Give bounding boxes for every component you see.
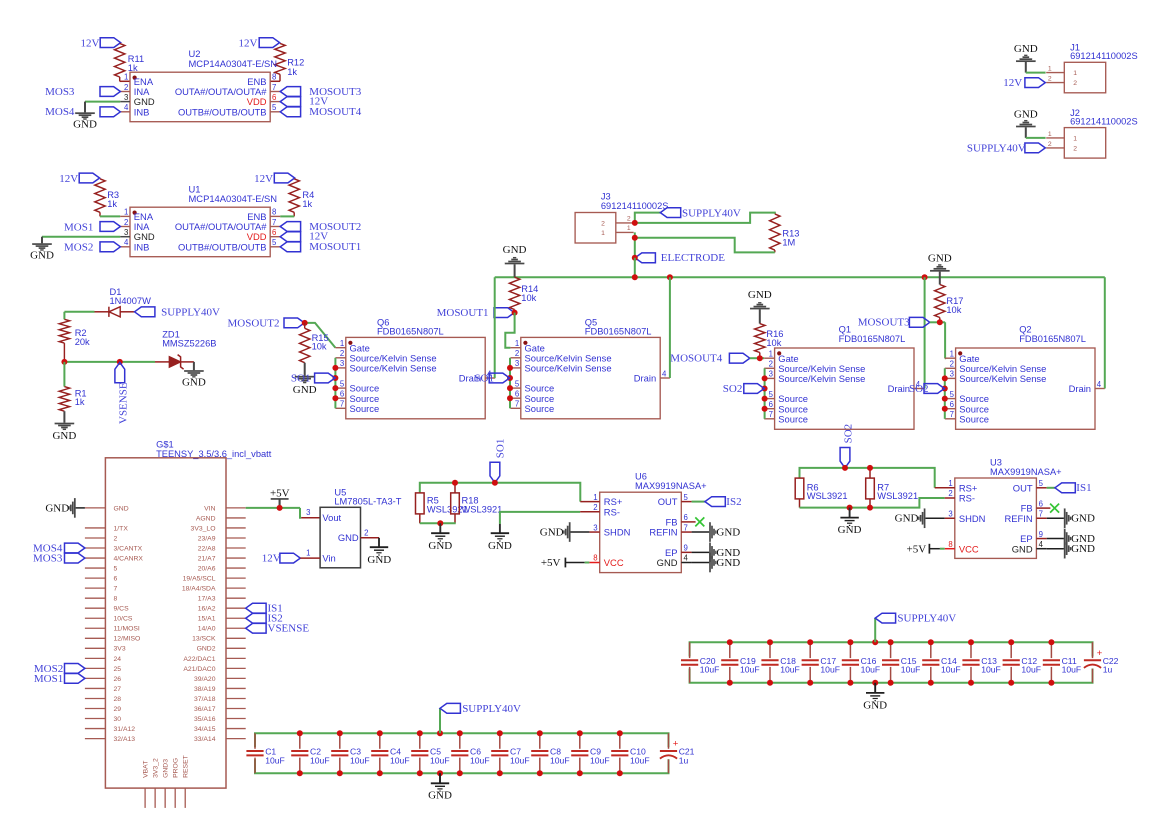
label 12V (U5 Vin) bbox=[262, 553, 301, 565]
svg-text:10uF: 10uF bbox=[820, 665, 840, 675]
ground GND (ZD1) bbox=[182, 362, 206, 389]
svg-text:Source: Source bbox=[525, 403, 555, 414]
label MOSOUT3 (Q2 gate) bbox=[858, 317, 930, 329]
svg-text:GND: GND bbox=[748, 289, 772, 301]
svg-text:SO2: SO2 bbox=[842, 424, 854, 444]
svg-text:FDB0165N807L: FDB0165N807L bbox=[1019, 334, 1086, 344]
capacitor C16 10uF bbox=[842, 642, 880, 683]
capacitor C6 10uF bbox=[451, 733, 489, 773]
power flag 12V (R4 top) bbox=[254, 173, 295, 185]
svg-text:Drain: Drain bbox=[1069, 383, 1091, 394]
resistor R18 WSL3921 bbox=[451, 483, 503, 524]
svg-text:23/A9: 23/A9 bbox=[198, 535, 216, 542]
label MOS3 (Teensy 4/CANRX) bbox=[33, 552, 85, 564]
wire R2/R1 node to ZD1 bbox=[64, 361, 155, 363]
svg-text:1u: 1u bbox=[679, 755, 689, 765]
transistor Q1 FDB0165N807L box bbox=[775, 325, 914, 430]
Q1 source junction dots bbox=[762, 375, 768, 411]
wire bus to Q5 drain bbox=[669, 277, 671, 378]
svg-text:3: 3 bbox=[340, 359, 344, 368]
capacitor C4 10uF bbox=[371, 733, 409, 773]
label SUPPLY40V (D1) bbox=[135, 306, 220, 318]
R5/R18 bottom rail bbox=[420, 522, 456, 524]
wire Teensy VIN to U5 Vout bbox=[246, 508, 320, 518]
svg-text:5: 5 bbox=[114, 565, 118, 572]
svg-text:3: 3 bbox=[769, 370, 773, 379]
capacitor C7 10uF bbox=[491, 733, 529, 773]
svg-text:7: 7 bbox=[515, 400, 519, 409]
svg-text:GND: GND bbox=[338, 532, 359, 543]
svg-text:MOS3: MOS3 bbox=[45, 86, 75, 98]
transistor Q2 FDB0165N807L box bbox=[956, 325, 1095, 430]
svg-text:WSL3921: WSL3921 bbox=[807, 491, 848, 501]
svg-text:10uF: 10uF bbox=[265, 755, 285, 765]
svg-text:1k: 1k bbox=[302, 199, 312, 209]
svg-text:37/A18: 37/A18 bbox=[194, 696, 216, 703]
svg-text:FDB0165N807L: FDB0165N807L bbox=[585, 327, 652, 337]
svg-text:8: 8 bbox=[272, 208, 276, 217]
Q1 pin stubs bbox=[764, 358, 924, 419]
label IS2 bbox=[705, 496, 742, 508]
transistor Q6 FDB0165N807L box bbox=[346, 317, 485, 418]
svg-text:MOSOUT3: MOSOUT3 bbox=[858, 317, 910, 329]
R6/R7 bottom rail bbox=[800, 498, 945, 508]
svg-text:5: 5 bbox=[515, 379, 520, 388]
svg-text:GND: GND bbox=[1014, 109, 1038, 121]
svg-text:3: 3 bbox=[124, 228, 128, 237]
svg-text:691214110002S: 691214110002S bbox=[1070, 51, 1138, 61]
svg-text:8: 8 bbox=[948, 540, 952, 549]
svg-text:3: 3 bbox=[948, 509, 952, 518]
svg-text:6: 6 bbox=[950, 400, 954, 409]
svg-text:7: 7 bbox=[1039, 509, 1043, 518]
svg-text:26: 26 bbox=[114, 676, 122, 683]
svg-text:28: 28 bbox=[114, 696, 122, 703]
svg-text:WSL3921: WSL3921 bbox=[462, 505, 503, 515]
svg-text:7: 7 bbox=[684, 523, 688, 532]
MCU G$1 TEENSY_3.5/3.6_incl_vbatt box bbox=[105, 439, 271, 788]
svg-text:8: 8 bbox=[272, 73, 276, 82]
U6 pin numbers bbox=[593, 493, 688, 563]
svg-text:GND: GND bbox=[428, 790, 452, 802]
svg-text:1: 1 bbox=[601, 230, 605, 237]
svg-text:12V: 12V bbox=[239, 38, 258, 50]
svg-text:9: 9 bbox=[1039, 530, 1043, 539]
svg-text:10uF: 10uF bbox=[470, 755, 490, 765]
svg-text:MAX9919NASA+: MAX9919NASA+ bbox=[635, 481, 707, 491]
ground GND (U6 RS-) bbox=[488, 524, 512, 552]
svg-text:1k: 1k bbox=[287, 67, 297, 77]
R6/R7 rail junction dots bbox=[842, 465, 873, 511]
svg-text:20k: 20k bbox=[75, 337, 90, 347]
svg-text:8: 8 bbox=[593, 554, 597, 563]
svg-text:12/MISO: 12/MISO bbox=[114, 636, 141, 643]
connector J3 691214110002S bbox=[575, 192, 668, 243]
svg-text:691214110002S: 691214110002S bbox=[1070, 116, 1138, 126]
svg-text:7: 7 bbox=[272, 83, 276, 92]
svg-text:15/A1: 15/A1 bbox=[198, 616, 216, 623]
wire J3 pin1 to R13 bottom bbox=[635, 232, 775, 252]
wire U1 pin3 to GND bbox=[42, 236, 130, 238]
resistor R5 WSL3921 bbox=[416, 493, 468, 523]
svg-text:5: 5 bbox=[1039, 479, 1044, 488]
svg-text:TEENSY_3.5/3.6_incl_vbatt: TEENSY_3.5/3.6_incl_vbatt bbox=[156, 449, 272, 459]
label MOS3 bbox=[45, 86, 120, 98]
svg-text:U3: U3 bbox=[990, 457, 1002, 467]
svg-text:+5V: +5V bbox=[907, 543, 927, 555]
svg-text:12V: 12V bbox=[1003, 77, 1022, 89]
label SO1 (shunt bank, vertical) bbox=[490, 439, 506, 483]
svg-text:GND: GND bbox=[503, 244, 527, 256]
Teensy bottom pins VBAT 3V3_2 GND3 PROG RESET bbox=[143, 755, 190, 808]
svg-text:U6: U6 bbox=[635, 472, 647, 482]
bank junction dots bbox=[297, 730, 623, 776]
capacitor C17 10uF bbox=[802, 642, 840, 683]
capacitor C18 10uF bbox=[761, 642, 799, 683]
svg-text:Source/Kelvin Sense: Source/Kelvin Sense bbox=[350, 363, 437, 374]
svg-text:GND: GND bbox=[114, 505, 129, 512]
svg-text:GND: GND bbox=[30, 250, 54, 262]
wire bus to Q2 drain bbox=[1104, 277, 1106, 388]
label VSENSE (Teensy 14/A0) bbox=[246, 623, 310, 635]
svg-text:2: 2 bbox=[627, 216, 631, 223]
svg-text:13/SCK: 13/SCK bbox=[192, 636, 216, 643]
resistor R12 bbox=[270, 43, 304, 81]
capacitor C13 10uF bbox=[962, 642, 1000, 683]
svg-text:10uF: 10uF bbox=[901, 665, 921, 675]
wire U3 OUT to IS1 bbox=[1047, 487, 1055, 489]
svg-text:MCP14A0304T-E/SN: MCP14A0304T-E/SN bbox=[189, 193, 278, 204]
U2 pin names bbox=[134, 76, 267, 118]
wire U6 EP to GND bbox=[692, 551, 710, 553]
U3 pin names bbox=[959, 482, 1033, 554]
resistor R2 bbox=[59, 319, 90, 362]
svg-text:Source/Kelvin Sense: Source/Kelvin Sense bbox=[778, 373, 865, 384]
ground GND (U2) bbox=[73, 102, 97, 131]
ground GND (U1) bbox=[30, 237, 54, 262]
svg-text:IS2: IS2 bbox=[726, 496, 741, 508]
wire RS- to its GND bbox=[500, 512, 580, 524]
svg-text:10k: 10k bbox=[521, 293, 536, 303]
svg-text:4: 4 bbox=[124, 103, 129, 112]
Teensy left pin names bbox=[114, 505, 144, 743]
svg-text:1: 1 bbox=[948, 479, 952, 488]
svg-text:1: 1 bbox=[1073, 136, 1077, 143]
capacitor C9 10uF bbox=[571, 733, 609, 773]
wire R3 to U1 pin1 bbox=[100, 215, 120, 217]
ground GND (R6/R7) bbox=[838, 508, 862, 537]
svg-text:1: 1 bbox=[124, 73, 128, 82]
svg-text:3: 3 bbox=[950, 370, 954, 379]
svg-text:1: 1 bbox=[306, 549, 310, 558]
Q6 pin numbers bbox=[340, 339, 492, 409]
label SO2 (shunt bank, vertical) bbox=[840, 424, 854, 468]
svg-text:VCC: VCC bbox=[604, 557, 624, 568]
wire U3 EP to GND bbox=[1047, 538, 1064, 540]
Q6 source bus wire bbox=[334, 358, 336, 409]
svg-text:GND: GND bbox=[1071, 543, 1095, 555]
svg-text:GND: GND bbox=[1012, 543, 1033, 554]
svg-text:GND2: GND2 bbox=[197, 646, 216, 653]
svg-text:7: 7 bbox=[114, 586, 118, 593]
svg-text:10uF: 10uF bbox=[1021, 665, 1041, 675]
connector J1 691214110002S bbox=[1046, 43, 1137, 93]
U1 pin numbers bbox=[124, 208, 277, 248]
U2 pin stubs bbox=[120, 92, 280, 112]
svg-text:1/TX: 1/TX bbox=[114, 525, 129, 532]
wire U6 REFIN to GND bbox=[692, 531, 710, 533]
svg-text:RS-: RS- bbox=[604, 506, 620, 517]
svg-text:MAX9919NASA+: MAX9919NASA+ bbox=[990, 467, 1062, 477]
svg-text:10uF: 10uF bbox=[590, 755, 610, 765]
svg-text:2: 2 bbox=[114, 535, 118, 542]
op-amp U1 MCP14A0304T-E/SN gate driver box bbox=[130, 183, 277, 256]
svg-text:4: 4 bbox=[1039, 540, 1044, 549]
ground GND (cap bank) bbox=[428, 773, 452, 802]
ground GND (above R17) bbox=[928, 253, 952, 285]
wire bus to Q1 drain bbox=[924, 277, 926, 388]
svg-text:3: 3 bbox=[593, 523, 597, 532]
label IS1 (Teensy 16/A2) bbox=[246, 603, 283, 615]
svg-text:5: 5 bbox=[272, 103, 277, 112]
wire main supply bus bbox=[495, 258, 1105, 277]
wire MOSOUT2 to Q6 gate (diagonal) bbox=[305, 323, 336, 348]
svg-text:GND: GND bbox=[863, 699, 887, 711]
svg-text:GND: GND bbox=[182, 377, 206, 389]
ground GND (U6 REFIN, sideways) bbox=[709, 522, 740, 542]
svg-text:6: 6 bbox=[272, 228, 276, 237]
wire U2 pin3 to GND bbox=[85, 101, 130, 103]
svg-text:WSL3921: WSL3921 bbox=[877, 491, 918, 501]
svg-text:MOS3: MOS3 bbox=[33, 552, 63, 564]
capacitor C10 10uF bbox=[611, 733, 649, 773]
svg-text:SO1: SO1 bbox=[494, 439, 506, 459]
svg-text:Drain: Drain bbox=[634, 373, 656, 384]
svg-text:INB: INB bbox=[134, 106, 150, 117]
svg-text:GND: GND bbox=[367, 554, 391, 566]
Q5 pin names bbox=[525, 342, 657, 414]
svg-text:6: 6 bbox=[340, 390, 344, 399]
wire R4 to U1 pin8 bbox=[280, 215, 294, 217]
svg-text:10uF: 10uF bbox=[510, 755, 530, 765]
svg-text:1N4007W: 1N4007W bbox=[110, 296, 152, 306]
svg-text:OUTB#/OUTB/OUTB: OUTB#/OUTB/OUTB bbox=[178, 106, 267, 117]
node R14/MOSOUT1 bbox=[512, 310, 518, 316]
svg-text:4: 4 bbox=[662, 369, 667, 378]
capacitor C12 10uF bbox=[1003, 642, 1041, 683]
wire J3 pin2 to SUPPLY40V and R13 top bbox=[635, 213, 775, 223]
svg-text:2: 2 bbox=[1073, 146, 1077, 153]
wire R14 node to Q5 gate bbox=[505, 313, 514, 348]
resistor R13 1M bbox=[770, 214, 800, 253]
ground GND (R15) bbox=[293, 363, 317, 396]
svg-text:9/CS: 9/CS bbox=[114, 606, 130, 613]
svg-text:MOSOUT4: MOSOUT4 bbox=[670, 353, 722, 365]
svg-text:VBAT: VBAT bbox=[143, 761, 150, 778]
resistor R7 WSL3921 bbox=[866, 468, 918, 508]
label MOSOUT1 (Q5 gate) bbox=[437, 307, 515, 319]
svg-text:2: 2 bbox=[950, 360, 954, 369]
svg-text:SUPPLY40V: SUPPLY40V bbox=[897, 613, 956, 625]
svg-text:2: 2 bbox=[515, 349, 519, 358]
label MOSOUT4 (U2 pin5) bbox=[280, 106, 362, 118]
label MOS4 (Teensy 3/CANTX) bbox=[33, 542, 85, 554]
label IS2 (Teensy 15/A1) bbox=[246, 613, 283, 625]
svg-text:FDB0165N807L: FDB0165N807L bbox=[839, 334, 906, 344]
svg-text:SO2: SO2 bbox=[723, 383, 743, 395]
svg-text:12V: 12V bbox=[81, 38, 100, 50]
svg-text:1k: 1k bbox=[107, 199, 117, 209]
Teensy left pin stubs bbox=[85, 508, 106, 739]
ground GND (U6 pin4, sideways) bbox=[709, 553, 740, 573]
svg-text:6: 6 bbox=[769, 400, 773, 409]
label 12V (J1 pin2) bbox=[1003, 77, 1045, 89]
diode D1 1N4007W bbox=[95, 287, 152, 317]
label MOS1 bbox=[64, 221, 120, 233]
svg-text:10uF: 10uF bbox=[550, 755, 570, 765]
svg-text:3V3: 3V3 bbox=[114, 646, 126, 653]
Q6 pin stubs bbox=[335, 348, 495, 409]
svg-text:3: 3 bbox=[515, 359, 519, 368]
label SUPPLY40V (J3) bbox=[660, 207, 741, 219]
svg-text:GND: GND bbox=[716, 527, 740, 539]
svg-text:6: 6 bbox=[684, 513, 688, 522]
capacitor C15 10uF bbox=[882, 642, 920, 683]
svg-text:7: 7 bbox=[340, 400, 344, 409]
svg-text:AGND: AGND bbox=[196, 515, 216, 522]
svg-text:9: 9 bbox=[684, 544, 688, 553]
svg-text:10uF: 10uF bbox=[700, 665, 720, 675]
svg-text:SUPPLY40V: SUPPLY40V bbox=[462, 703, 521, 715]
label SO2 (Q1 sources) bbox=[723, 383, 764, 395]
svg-text:2: 2 bbox=[364, 528, 368, 537]
svg-text:2: 2 bbox=[1048, 141, 1052, 148]
capacitor C5 10uF bbox=[411, 733, 449, 773]
svg-text:GND3: GND3 bbox=[163, 759, 170, 778]
svg-text:SUPPLY40V: SUPPLY40V bbox=[682, 207, 741, 219]
ground GND (U6 SHDN, sideways) bbox=[540, 522, 590, 542]
capacitor C19 10uF bbox=[721, 642, 759, 683]
power flag 12V (R3 top) bbox=[59, 173, 99, 185]
U3 pin stubs bbox=[935, 488, 1051, 549]
svg-text:32/A13: 32/A13 bbox=[114, 736, 136, 743]
Q2 pin numbers bbox=[950, 350, 1102, 420]
Q2 pin stubs bbox=[945, 358, 1105, 419]
svg-text:10k: 10k bbox=[312, 342, 327, 352]
svg-text:GND: GND bbox=[895, 513, 919, 525]
svg-text:10uF: 10uF bbox=[1062, 665, 1082, 675]
power flag 12V (R11 top) bbox=[81, 38, 121, 50]
svg-text:RS-: RS- bbox=[959, 493, 975, 504]
wire U3 REFIN to GND bbox=[1047, 517, 1064, 519]
svg-text:Vin: Vin bbox=[322, 553, 335, 564]
U3 pin numbers bbox=[948, 479, 1043, 549]
svg-text:GND: GND bbox=[52, 430, 76, 442]
svg-text:20/A6: 20/A6 bbox=[198, 565, 216, 572]
svg-text:Source: Source bbox=[778, 413, 808, 424]
bus junction dots bbox=[632, 274, 928, 280]
op-amp U6 MAX9919NASA+ box bbox=[600, 472, 707, 573]
label MOSOUT4 (Q1 gate) bbox=[670, 353, 750, 365]
svg-text:38/A19: 38/A19 bbox=[194, 686, 216, 693]
svg-text:1: 1 bbox=[124, 208, 128, 217]
svg-text:691214110002S: 691214110002S bbox=[601, 201, 669, 211]
svg-text:1: 1 bbox=[1048, 131, 1052, 138]
svg-text:6: 6 bbox=[272, 93, 276, 102]
zener diode ZD1 MMSZ5226B bbox=[155, 330, 216, 370]
svg-text:2: 2 bbox=[769, 360, 773, 369]
svg-text:10uF: 10uF bbox=[350, 755, 370, 765]
svg-text:+5V: +5V bbox=[270, 487, 290, 499]
svg-text:2: 2 bbox=[1048, 76, 1052, 83]
svg-text:1M: 1M bbox=[782, 237, 795, 247]
capacitor C8 10uF bbox=[531, 733, 569, 773]
Q2 source bus wire bbox=[944, 368, 946, 419]
bank junction dots bbox=[727, 639, 1055, 686]
svg-text:1: 1 bbox=[515, 339, 519, 348]
power +5V (U6 VCC) bbox=[541, 557, 590, 569]
svg-text:OUT: OUT bbox=[658, 496, 678, 507]
svg-text:10k: 10k bbox=[946, 305, 961, 315]
label MOSOUT1 (U1 pin5) bbox=[280, 241, 361, 253]
svg-text:GND: GND bbox=[928, 253, 952, 265]
svg-text:7: 7 bbox=[950, 410, 954, 419]
svg-text:33/A14: 33/A14 bbox=[194, 736, 216, 743]
svg-text:5: 5 bbox=[769, 390, 774, 399]
svg-text:MCP14A0304T-E/SN: MCP14A0304T-E/SN bbox=[189, 58, 278, 69]
svg-text:1: 1 bbox=[1073, 70, 1077, 77]
wire U6 GND pin to GND bbox=[692, 562, 710, 564]
label MOS4 bbox=[45, 106, 120, 118]
ground GND (J2) bbox=[1014, 109, 1046, 138]
Q1 pin numbers bbox=[769, 350, 921, 420]
label 12V (U1 pin6) bbox=[280, 231, 328, 243]
svg-text:2: 2 bbox=[124, 218, 128, 227]
capacitor C22 1u (polarized) bbox=[1084, 642, 1119, 683]
svg-text:10/CS: 10/CS bbox=[114, 616, 133, 623]
wire bus to Q6 drain bbox=[494, 277, 496, 378]
capacitor C21 1u (polarized) bbox=[660, 733, 695, 773]
svg-text:10uF: 10uF bbox=[310, 755, 330, 765]
svg-text:12V: 12V bbox=[262, 553, 281, 565]
svg-text:GND: GND bbox=[1014, 43, 1038, 55]
node R2-R1-VSENSE bbox=[61, 359, 122, 365]
svg-text:FDB0165N807L: FDB0165N807L bbox=[377, 327, 444, 337]
svg-text:22/A8: 22/A8 bbox=[198, 545, 216, 552]
svg-text:12V: 12V bbox=[59, 173, 78, 185]
svg-text:17/A3: 17/A3 bbox=[198, 596, 216, 603]
U5 GND pin wire bbox=[361, 538, 380, 547]
label SUPPLY40V (cap bank) bbox=[875, 613, 956, 643]
svg-text:16/A2: 16/A2 bbox=[198, 606, 216, 613]
svg-text:1: 1 bbox=[769, 350, 773, 359]
ground GND (U3 SHDN, sideways) bbox=[895, 509, 945, 529]
svg-text:3: 3 bbox=[306, 508, 310, 517]
ground GND (U6 EP, sideways) bbox=[709, 543, 740, 563]
Q5 source bus wire bbox=[509, 358, 511, 409]
Teensy right pin stubs bbox=[226, 508, 246, 739]
wire R17 node to Q2 gate bbox=[930, 322, 945, 358]
svg-text:4: 4 bbox=[684, 554, 689, 563]
svg-text:VIN: VIN bbox=[204, 505, 215, 512]
resistor R3 bbox=[95, 179, 119, 217]
svg-text:GND: GND bbox=[45, 502, 69, 514]
svg-text:1: 1 bbox=[593, 493, 597, 502]
U6 pin stubs bbox=[580, 502, 695, 563]
svg-text:36/A17: 36/A17 bbox=[194, 706, 216, 713]
label SO1 (Q6 sources) bbox=[291, 372, 335, 384]
svg-text:1: 1 bbox=[340, 339, 344, 348]
